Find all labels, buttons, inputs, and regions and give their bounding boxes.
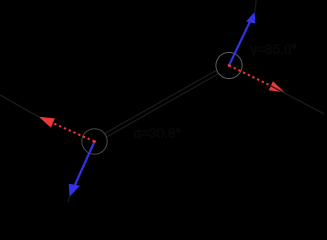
wire: faint ray through left red arrowhead to left edge — [0, 95, 39, 117]
svg-text:α=30.8°: α=30.8° — [134, 126, 181, 141]
vector F1: red dashed force arrow of left particle — [39, 117, 96, 143]
wire: faint connector line between particles (ghost edges of black line) — [105, 70, 219, 137]
svg-text:γ=85.0°: γ=85.0° — [251, 42, 297, 57]
wire: faint ray above right blue arrow tip — [255, 0, 256, 12]
node B: right particle circle — [216, 52, 242, 78]
vector v1: blue velocity arrow of right particle — [229, 12, 255, 66]
wire: faint ray below left blue arrow tip — [68, 197, 69, 203]
node A: left particle circle — [82, 129, 107, 154]
vector v2: blue velocity arrow of left particle — [69, 142, 95, 197]
wire: faint ray through right red arrowhead to right edge — [270, 86, 324, 114]
vector F2: red dashed force arrow of right particle — [228, 64, 285, 92]
